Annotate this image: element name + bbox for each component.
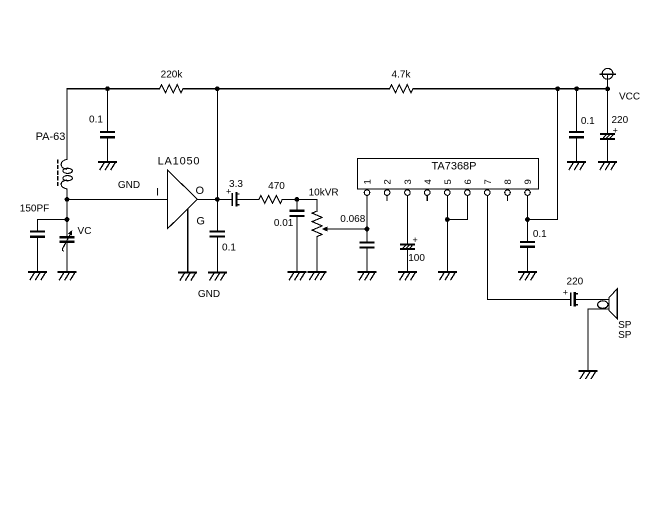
ground (100): [399, 272, 416, 280]
wire top rail right segment: [413, 88, 608, 90]
wire 0.1 pin9 to ground: [527, 248, 529, 272]
node rail/VCC: [605, 87, 610, 92]
capacitor C 3.3 electrolytic horizontal: [232, 193, 239, 205]
node tuning: [65, 217, 70, 222]
wire pot bottom to ground: [316, 237, 318, 272]
wire input signal line: [67, 198, 167, 200]
wire pin7 down to speaker line: [487, 195, 570, 299]
svg-text:2: 2: [383, 179, 394, 184]
wire 0.01 to ground: [296, 217, 298, 272]
svg-text:100: 100: [408, 253, 425, 264]
resistor R 470: [259, 195, 282, 203]
svg-text:+: +: [613, 126, 618, 136]
svg-text:+: +: [226, 186, 231, 196]
pot wiper arrowhead: [322, 227, 328, 232]
wire 0.1 TR to ground: [576, 138, 578, 161]
ground (VC): [59, 272, 76, 280]
svg-text:0.1: 0.1: [222, 243, 236, 254]
svg-text:5: 5: [443, 179, 454, 184]
wire 220 to speaker: [576, 298, 609, 300]
ground (0.068): [359, 272, 376, 280]
resistor R 220k: [160, 85, 183, 93]
wire G pin: [187, 209, 189, 272]
svg-text:4.7k: 4.7k: [392, 70, 412, 81]
svg-text:PA-63: PA-63: [36, 131, 66, 143]
op-amp U1 LA1050 triangle: [167, 170, 197, 229]
ground (0.1 left): [99, 162, 116, 170]
svg-text:4: 4: [423, 179, 434, 184]
svg-text:LA1050: LA1050: [158, 156, 201, 168]
capacitor 150PF plates: [31, 232, 44, 237]
svg-text:+: +: [563, 288, 568, 298]
speaker driver: [598, 301, 608, 309]
svg-text:220: 220: [567, 277, 584, 288]
capacitor 0.1 (pin9) plates: [521, 242, 534, 247]
wire output node down to 0.1: [216, 199, 218, 230]
svg-text:150PF: 150PF: [20, 204, 49, 215]
capacitor C 220 electrolytic horizontal (speaker coupling): [571, 293, 578, 305]
ground (0.1 top-right): [568, 162, 585, 170]
svg-text:7: 7: [483, 179, 494, 184]
wire to 150PF branch: [38, 219, 67, 221]
speaker SP horn: [609, 289, 617, 319]
wire top rail middle segment: [183, 88, 390, 90]
node wiper/pin1: [365, 227, 370, 232]
capacitor 0.1 top-right plates: [570, 132, 583, 137]
node rail/output: [215, 86, 220, 91]
wire top rail left segment: [67, 89, 160, 159]
ground (0.01): [288, 272, 305, 280]
wire pin1 down: [366, 195, 368, 241]
capacitor C 220 electrolytic top-right: lead: [607, 89, 609, 133]
node rail/pin9 riser: [555, 86, 560, 91]
wire pin5 to pin6: [447, 219, 467, 221]
ground (150PF): [29, 272, 46, 280]
svg-text:220: 220: [611, 115, 628, 126]
variable capacitor VC: top lead: [66, 220, 68, 237]
VC arrow: [62, 233, 71, 251]
ground (0.1 pin9): [519, 272, 536, 280]
capacitor 0.1 left bypass: wire: [107, 89, 109, 131]
svg-text:VC: VC: [78, 226, 92, 237]
wire 0.068 to ground: [366, 249, 368, 272]
svg-text:9: 9: [523, 179, 534, 184]
svg-text:GND: GND: [198, 289, 220, 300]
wire pin9 node to rail riser: [528, 89, 558, 220]
wire 150PF to ground: [37, 238, 39, 272]
node rail/0.1TR: [574, 86, 579, 91]
wire 220 TR to ground: [607, 140, 609, 161]
capacitor 0.068 plates: [361, 242, 374, 247]
wire speaker bottom: [588, 309, 609, 371]
inductor PA-63 antenna coil: [61, 159, 72, 189]
svg-text:10kVR: 10kVR: [309, 188, 339, 199]
IC U2 TA7368P box: [358, 158, 539, 189]
wire LA1050 output: [197, 198, 232, 200]
capacitor VC plates: [61, 237, 74, 242]
svg-text:I: I: [156, 187, 159, 199]
node rail/0.1L: [105, 86, 110, 91]
wire coil bottom stem: [66, 189, 68, 200]
potentiometer VR 10kVR zigzag: [312, 211, 322, 237]
wire VC to ground: [66, 243, 68, 272]
power symbol VCC: [600, 68, 615, 88]
svg-text:VCC: VCC: [619, 92, 640, 103]
wire 100 to ground: [406, 250, 408, 272]
wire pin9 down: [527, 195, 529, 241]
wire pin5 down: [446, 195, 448, 271]
resistor R 4.7k: [390, 85, 413, 93]
inductor core dashed line: [57, 160, 59, 186]
wire down to tuning node: [66, 199, 68, 219]
svg-text:G: G: [196, 216, 205, 228]
svg-text:470: 470: [268, 181, 285, 192]
svg-text:SP: SP: [618, 330, 632, 341]
node pin5/pin6: [445, 217, 450, 222]
wire 470 to pot: [282, 199, 317, 211]
ground (220 top-right): [599, 162, 616, 170]
node coil/input: [65, 197, 70, 202]
wire output node up to rail: [216, 89, 218, 200]
capacitor 0.1 (at output) plates: [211, 231, 224, 236]
svg-text:6: 6: [463, 179, 474, 184]
ground (pin5): [439, 272, 456, 280]
svg-text:0.1: 0.1: [533, 229, 547, 240]
svg-text:+: +: [412, 235, 417, 245]
capacitor 0.1 top-right: lead: [576, 89, 578, 131]
svg-text:220k: 220k: [161, 70, 184, 81]
svg-text:8: 8: [503, 179, 514, 184]
capacitor 150PF: top lead: [37, 220, 39, 231]
wire 3.3 to 470: [238, 198, 259, 200]
node pin9: [525, 217, 530, 222]
capacitor 0.01: lead: [296, 199, 298, 209]
svg-text:0.1: 0.1: [89, 115, 103, 126]
ground (pot): [309, 272, 326, 280]
svg-text:0.01: 0.01: [274, 218, 294, 229]
capacitor 0.1 left plates: [101, 132, 114, 137]
wire 0.1 output to ground: [216, 238, 218, 272]
wire 0.1 left to ground: [107, 138, 109, 161]
ground (LA1050 G): [179, 273, 196, 281]
wire pin6 down: [466, 195, 468, 219]
svg-text:0.068: 0.068: [340, 214, 365, 225]
pot wiper wire: [327, 228, 367, 230]
svg-text:0.1: 0.1: [581, 116, 595, 127]
svg-text:GND: GND: [118, 180, 140, 191]
capacitor C 100 electrolytic vertical: [401, 244, 414, 249]
IC pin stubs and circles: [364, 190, 530, 201]
svg-text:O: O: [196, 185, 205, 197]
node 470/0.01: [295, 197, 300, 202]
ground (speaker): [579, 371, 596, 379]
node dots: [65, 86, 610, 231]
svg-text:3: 3: [403, 179, 414, 184]
node output: [215, 197, 220, 202]
svg-text:1: 1: [363, 179, 374, 184]
svg-text:TA7368P: TA7368P: [431, 161, 476, 173]
wire pin3 down: [406, 195, 408, 243]
capacitor 220 TR body: [601, 134, 614, 139]
capacitor 0.01 plates: [290, 211, 303, 216]
ground (0.1 output): [209, 273, 226, 281]
